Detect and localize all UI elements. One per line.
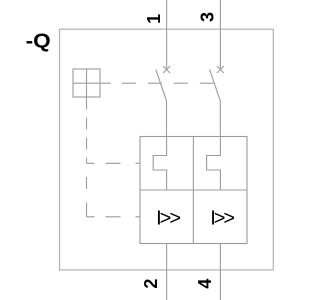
breaker function cross pole 2 — [217, 66, 224, 73]
thermal overload element pole 1 — [153, 137, 166, 191]
contact blade pole 1 — [156, 69, 167, 100]
breaker function cross pole 1 — [163, 66, 170, 73]
svg-text:-Q: -Q — [26, 30, 51, 52]
dashed linkage branch to thermal trip — [87, 162, 141, 164]
dashed linkage vertical upper — [86, 110, 88, 164]
dashed linkage branch to magnetic trip — [87, 216, 141, 218]
svg-text:I>>: I>> — [156, 207, 180, 229]
svg-text:4: 4 — [195, 279, 215, 289]
svg-text:2: 2 — [141, 279, 161, 289]
svg-text:3: 3 — [197, 12, 217, 22]
trip unit block frame — [140, 137, 247, 244]
dashed linkage corner joint — [86, 214, 88, 217]
wire pole 2 bottom (terminal 4) — [219, 244, 221, 300]
wire pole 1 to trip block — [166, 101, 168, 137]
wire pole 1 bottom (terminal 2) — [166, 244, 168, 300]
manual operator square — [73, 69, 100, 97]
svg-text:1: 1 — [144, 14, 164, 24]
operator cross line horizontal — [73, 82, 111, 84]
thermal overload element pole 2 — [207, 137, 221, 191]
trip block vertical divider — [192, 137, 194, 244]
wire pole 2 to trip block — [219, 101, 221, 137]
wire pole 2 top (terminal 3) — [219, 0, 221, 70]
svg-text:I>>: I>> — [210, 207, 234, 229]
contact blade pole 2 — [210, 69, 221, 100]
enclosure outline box — [60, 29, 274, 270]
dashed linkage horizontal to contacts — [122, 82, 215, 84]
wire pole 1 top (terminal 1) — [166, 0, 168, 70]
operator cross line vertical — [86, 69, 88, 110]
trip block horizontal divider — [140, 189, 247, 191]
dashed linkage vertical lower — [86, 163, 88, 217]
